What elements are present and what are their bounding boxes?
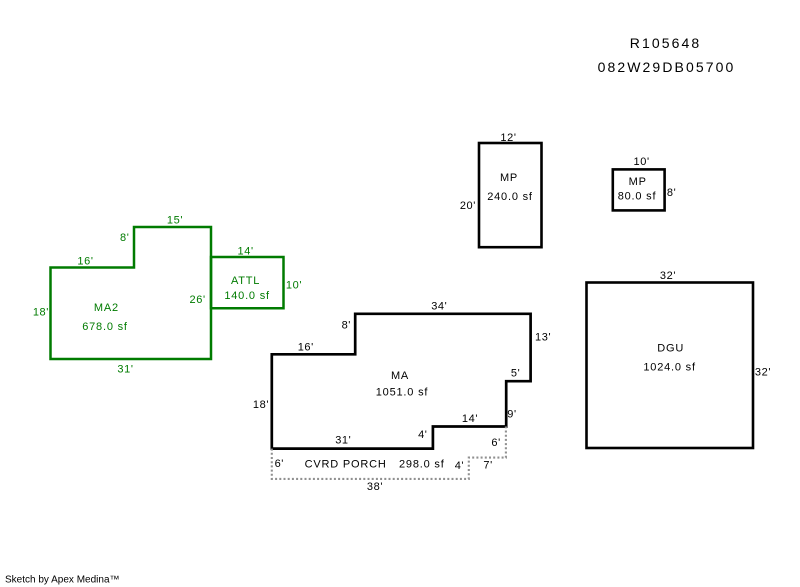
CVRD PORCH dashed outline xyxy=(272,427,506,479)
svg-text:4': 4' xyxy=(418,429,427,441)
DGU rectangle outline xyxy=(587,283,754,449)
svg-text:8': 8' xyxy=(667,187,676,199)
svg-text:15': 15' xyxy=(167,214,183,226)
svg-text:Sketch by Apex Medina™: Sketch by Apex Medina™ xyxy=(5,575,120,586)
svg-text:14': 14' xyxy=(462,413,478,425)
svg-text:140.0 sf: 140.0 sf xyxy=(224,290,270,302)
svg-text:7': 7' xyxy=(483,459,492,471)
svg-text:MP: MP xyxy=(500,172,518,184)
svg-text:31': 31' xyxy=(117,364,133,376)
svg-text:6': 6' xyxy=(275,458,284,470)
MP large rectangle outline xyxy=(479,143,542,247)
svg-text:31': 31' xyxy=(335,435,351,447)
svg-text:CVRD PORCH: CVRD PORCH xyxy=(305,458,387,470)
svg-text:16': 16' xyxy=(77,256,93,268)
svg-text:10': 10' xyxy=(286,280,302,292)
svg-text:12': 12' xyxy=(500,132,516,144)
MP small rectangle outline xyxy=(613,169,665,210)
svg-text:13': 13' xyxy=(535,332,551,344)
svg-text:20': 20' xyxy=(460,200,476,212)
svg-text:4': 4' xyxy=(455,460,464,472)
svg-text:10': 10' xyxy=(634,156,650,168)
svg-text:38': 38' xyxy=(367,481,383,493)
svg-text:5': 5' xyxy=(511,367,520,379)
svg-text:ATTL: ATTL xyxy=(231,275,260,287)
svg-text:32': 32' xyxy=(755,366,771,378)
svg-text:298.0 sf: 298.0 sf xyxy=(399,458,445,470)
svg-text:80.0 sf: 80.0 sf xyxy=(618,190,657,202)
svg-text:MP: MP xyxy=(629,176,647,188)
svg-text:32': 32' xyxy=(660,270,676,282)
svg-text:18': 18' xyxy=(253,399,269,411)
svg-text:1051.0 sf: 1051.0 sf xyxy=(376,387,429,399)
svg-text:14': 14' xyxy=(238,245,254,257)
MA black polygon outline xyxy=(272,314,531,449)
svg-text:DGU: DGU xyxy=(657,343,684,355)
svg-text:8': 8' xyxy=(342,320,351,332)
svg-text:MA2: MA2 xyxy=(94,302,119,314)
ATTL green rectangle outline xyxy=(211,257,284,308)
svg-text:678.0 sf: 678.0 sf xyxy=(82,321,128,333)
svg-text:240.0 sf: 240.0 sf xyxy=(487,191,533,203)
svg-text:8': 8' xyxy=(120,232,129,244)
svg-text:9': 9' xyxy=(507,409,516,421)
svg-text:16': 16' xyxy=(298,341,314,353)
svg-text:MA: MA xyxy=(391,370,409,382)
svg-text:18': 18' xyxy=(33,307,49,319)
svg-text:34': 34' xyxy=(431,301,447,313)
svg-text:6': 6' xyxy=(491,437,500,449)
svg-text:R105648: R105648 xyxy=(630,35,702,51)
svg-text:1024.0 sf: 1024.0 sf xyxy=(643,362,696,374)
MA2 green polygon outline xyxy=(51,227,212,359)
svg-text:26': 26' xyxy=(190,294,206,306)
svg-text:082W29DB05700: 082W29DB05700 xyxy=(598,59,736,75)
